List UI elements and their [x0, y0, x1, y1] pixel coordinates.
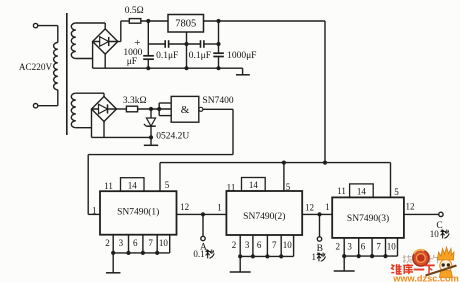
- svg-text:11: 11: [337, 186, 346, 196]
- svg-text:7805: 7805: [175, 19, 196, 30]
- svg-text:μF: μF: [127, 57, 137, 67]
- svg-text:SN7490(1): SN7490(1): [117, 207, 159, 218]
- svg-text:5: 5: [165, 180, 170, 190]
- svg-text:1: 1: [312, 252, 317, 262]
- svg-text:5: 5: [286, 182, 291, 192]
- svg-text:12: 12: [406, 201, 415, 211]
- svg-text:AC220V: AC220V: [19, 62, 53, 72]
- svg-text:2: 2: [105, 238, 110, 248]
- svg-text:3: 3: [347, 242, 352, 252]
- svg-text:3.3kΩ: 3.3kΩ: [123, 96, 147, 106]
- svg-text:SN7490(3): SN7490(3): [347, 213, 389, 224]
- svg-text:3: 3: [119, 238, 124, 248]
- svg-text:12: 12: [305, 202, 314, 212]
- svg-text:www.dzsc.com: www.dzsc.com: [392, 274, 459, 282]
- svg-text:11: 11: [104, 181, 113, 191]
- svg-text:&: &: [181, 104, 190, 116]
- svg-text:2: 2: [335, 242, 340, 252]
- svg-text:5: 5: [394, 187, 399, 197]
- svg-text:SN7400: SN7400: [202, 96, 233, 106]
- svg-text:10: 10: [283, 240, 293, 250]
- svg-text:0524.2U: 0524.2U: [156, 131, 189, 141]
- svg-text:1: 1: [325, 202, 330, 212]
- svg-text:1: 1: [217, 202, 222, 212]
- svg-text:0.1: 0.1: [193, 249, 204, 259]
- svg-text:7: 7: [272, 240, 277, 250]
- svg-text:1000μF: 1000μF: [227, 51, 256, 61]
- svg-text:SN7490(2): SN7490(2): [243, 211, 285, 222]
- svg-text:12: 12: [180, 202, 189, 212]
- svg-text:0.1μF: 0.1μF: [156, 51, 178, 61]
- svg-text:2: 2: [232, 240, 237, 250]
- svg-text:14: 14: [357, 187, 367, 197]
- svg-text:6: 6: [361, 242, 366, 252]
- svg-text:B: B: [317, 244, 323, 254]
- svg-text:14: 14: [128, 180, 138, 190]
- svg-text:14: 14: [249, 180, 259, 190]
- svg-text:7: 7: [376, 242, 381, 252]
- svg-text:6: 6: [257, 240, 262, 250]
- svg-text:0.5Ω: 0.5Ω: [125, 6, 144, 16]
- svg-text:1: 1: [92, 206, 97, 216]
- svg-text:3: 3: [245, 240, 250, 250]
- svg-text:6: 6: [133, 238, 138, 248]
- svg-text:11: 11: [227, 183, 236, 193]
- svg-text:0.1μF: 0.1μF: [189, 51, 211, 61]
- svg-text:7: 7: [148, 238, 153, 248]
- svg-text:10: 10: [430, 229, 440, 239]
- svg-text:10: 10: [387, 242, 397, 252]
- svg-text:10: 10: [159, 238, 169, 248]
